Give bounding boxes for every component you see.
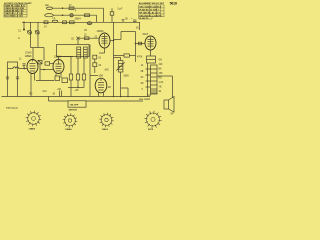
- capacitor C15 on grid wire: [139, 42, 142, 45]
- svg-text:C12: C12: [43, 91, 48, 93]
- wire V2 top: [58, 57, 60, 60]
- svg-text:R2: R2: [30, 94, 34, 96]
- capacitor C10: [122, 19, 129, 23]
- socket diagram V2 base: [63, 113, 78, 128]
- svg-text:5618: 5618: [170, 2, 177, 6]
- svg-text:12BA6: 12BA6: [54, 56, 62, 59]
- crystal diode X1: [77, 37, 80, 45]
- dial lamp wire: [53, 7, 104, 9]
- tube V2 12BA6 IF amp: [53, 60, 64, 74]
- junction dot at converter grid: [24, 68, 26, 70]
- resistor R3 on bus: [70, 21, 75, 24]
- wire grid return: [40, 69, 53, 71]
- wire cap stack link: [94, 59, 96, 63]
- resistor R13 on filament wire: [85, 14, 90, 17]
- capacitor C11 electrolytic: [131, 18, 137, 21]
- tube V1 12BE6 converter: [27, 60, 38, 74]
- wire (right drop of dial wire): [103, 8, 105, 22]
- potentiometer arrow P1: [116, 62, 124, 70]
- wire P1 link: [114, 57, 121, 59]
- coil L3 on bus: [52, 20, 58, 22]
- svg-text:22: 22: [84, 35, 87, 37]
- svg-text:+: +: [131, 18, 133, 20]
- resistor R9: [76, 74, 79, 80]
- filter/divider column: [151, 65, 158, 94]
- wire B+ feed column: [135, 32, 137, 63]
- svg-text:12BE6: 12BE6: [25, 56, 33, 58]
- switch loop wire right: [86, 100, 143, 102]
- wire osc section drop: [39, 64, 41, 81]
- svg-text:4: 4: [75, 11, 77, 13]
- capacitor C8 stack lower: [93, 63, 97, 67]
- svg-text:5: 5: [142, 89, 144, 91]
- wire V2 pins to cap: [55, 73, 57, 76]
- wire drop at C11: [139, 22, 141, 30]
- svg-text:C1: C1: [18, 31, 22, 33]
- wire V2 cathode: [60, 73, 62, 78]
- svg-text:G: G: [18, 38, 20, 40]
- output transformer T2: [147, 56, 156, 63]
- svg-text:50C5: 50C5: [143, 34, 149, 36]
- svg-text:5 µF: 5 µF: [118, 9, 123, 11]
- svg-text:4D: 4D: [141, 83, 144, 85]
- svg-text:35: 35: [136, 28, 139, 30]
- capacitor C4 under V2: [55, 76, 60, 81]
- socket diagram V4 base: [99, 113, 114, 128]
- junction dot: [77, 87, 79, 89]
- svg-text:30: 30: [53, 94, 56, 96]
- svg-text:14: 14: [44, 27, 47, 29]
- resistor R5: [45, 62, 50, 65]
- svg-text:AVC: AVC: [105, 68, 110, 71]
- junction dot W1: [62, 7, 64, 9]
- loop antenna L1: [6, 62, 19, 97]
- svg-text:10M: 10M: [99, 76, 104, 78]
- svg-text:.01: .01: [98, 57, 102, 59]
- svg-text:YE: YE: [159, 87, 163, 89]
- resistor R12 on dial wire: [69, 7, 74, 10]
- svg-text:12BA6: 12BA6: [97, 30, 105, 33]
- svg-text:.05: .05: [125, 19, 129, 21]
- svg-text:L3: L3: [53, 18, 56, 20]
- svg-text:470K: 470K: [137, 57, 143, 59]
- svg-text:SWITCH: SWITCH: [69, 109, 78, 111]
- pilot lamp symbol: [47, 7, 53, 9]
- wire center column a: [70, 57, 72, 75]
- svg-text:.02: .02: [98, 65, 102, 67]
- junction dot: [23, 29, 25, 31]
- bottom ground rail: [2, 96, 151, 98]
- svg-text:2B: 2B: [141, 71, 144, 73]
- speaker SP1: [164, 97, 174, 113]
- svg-text:VOL CONT: VOL CONT: [139, 99, 151, 101]
- filament wire: [53, 14, 96, 16]
- wire IF grid line: [78, 37, 99, 39]
- wire V1 cathode to rail: [30, 73, 32, 96]
- svg-text:500K: 500K: [124, 76, 130, 78]
- svg-text:12BE6: 12BE6: [29, 129, 36, 131]
- svg-text:ON-OFF: ON-OFF: [70, 104, 79, 106]
- electrolytic C13: [57, 89, 62, 97]
- svg-text:CONV: CONV: [25, 53, 32, 55]
- wire below R10: [83, 80, 85, 88]
- junction dots on rail: [113, 96, 129, 97]
- tube V5 50C5 output: [145, 36, 156, 50]
- tuning gang section A (trimmer C1): [27, 22, 32, 47]
- wire V5 plate down: [150, 50, 152, 56]
- resistor R8: [69, 74, 72, 80]
- IF transformer T1 can: [57, 45, 90, 57]
- svg-text:1.2K: 1.2K: [159, 82, 164, 84]
- coil L4 on bus: [87, 22, 92, 25]
- svg-text:1M: 1M: [108, 87, 111, 89]
- wire T2 left side down: [147, 63, 149, 97]
- wire detector column: [89, 45, 91, 97]
- svg-text:RD: RD: [159, 78, 163, 80]
- wire antenna drop: [23, 22, 25, 30]
- svg-text:C5: C5: [84, 30, 88, 32]
- svg-text:50C5 86 84 -6 15 8: 50C5 86 84 -6 15 8: [4, 15, 23, 18]
- svg-text:SP: SP: [171, 114, 175, 116]
- resistor R1 on bus: [44, 21, 48, 24]
- svg-text:Tube layout: Tube layout: [6, 106, 18, 109]
- T1 secondary coil: [84, 47, 88, 58]
- resistor R4: [38, 60, 42, 64]
- lamp symbol on filament wire: [70, 14, 73, 17]
- wire V3 bottom stub: [99, 52, 105, 54]
- svg-text:1A: 1A: [141, 64, 144, 67]
- volume control P1: [118, 61, 123, 73]
- wire tone cap drop: [121, 88, 128, 97]
- switch loop wire left: [49, 97, 69, 102]
- resistor R6: [62, 78, 68, 83]
- labels left of column: [141, 64, 144, 91]
- wire center column c: [83, 58, 85, 74]
- wire gang bottom: [31, 47, 45, 49]
- svg-text:BK: BK: [159, 69, 163, 71]
- parts/voltage table (top-left): [4, 2, 32, 18]
- wire to converter grid: [32, 48, 34, 60]
- wire V3 bottom pin: [104, 48, 106, 53]
- svg-text:40: 40: [159, 91, 162, 93]
- svg-text:IF 455 KC T1 TOP 7: IF 455 KC T1 TOP 7: [139, 9, 159, 12]
- svg-text:22K: 22K: [159, 64, 164, 66]
- labels right of column: [159, 60, 164, 94]
- svg-text:15K: 15K: [159, 73, 164, 75]
- wire V4 pins to rail: [99, 92, 104, 97]
- tube V3 12AV6 IF (top middle): [99, 33, 110, 48]
- wire to speaker: [157, 76, 173, 98]
- junction bus/antenna: [23, 22, 25, 24]
- left tap wires of column: [146, 69, 151, 87]
- wire AVC line: [36, 80, 54, 82]
- svg-text:12BA6: 12BA6: [65, 128, 72, 130]
- wire cap stack bottom: [94, 67, 96, 73]
- wire (right drop of filament wire): [96, 15, 98, 22]
- resistor R2 on bus: [63, 21, 67, 24]
- socket diagram V1 base: [26, 111, 42, 127]
- junction dot: [43, 69, 45, 71]
- wire V1 pin: [34, 73, 36, 80]
- phono pickup symbol: [45, 14, 54, 17]
- T1 primary coil: [77, 47, 81, 58]
- svg-text:12AV6: 12AV6: [102, 128, 109, 130]
- wire R5 to V2: [50, 63, 53, 65]
- resistor R11: [114, 54, 136, 57]
- tuning gang section B (trimmer C2): [35, 22, 40, 47]
- svg-text:+30: +30: [75, 90, 80, 92]
- wire P1 bottom: [120, 72, 122, 97]
- wire below R9: [77, 80, 79, 88]
- capacitor C3: [23, 64, 26, 69]
- antenna coil L2: [8, 67, 28, 69]
- svg-text:RF 1400 KC A1 LO 2: RF 1400 KC A1 LO 2: [139, 12, 160, 15]
- pilot lamp PL: [110, 8, 114, 22]
- svg-text:IF 455 T2: IF 455 T2: [139, 17, 149, 20]
- socket diagram V5 base: [144, 111, 161, 128]
- volume control column wire: [113, 22, 115, 96]
- wire center column b: [77, 58, 79, 74]
- resistor R10: [82, 74, 85, 80]
- on-off switch box S1: [68, 101, 86, 107]
- column bottom hatch: [151, 91, 158, 93]
- wire V3 plate right: [110, 40, 114, 42]
- B+ bus wire: [22, 21, 140, 23]
- junction dot: [135, 43, 137, 45]
- wire osc coil drop: [43, 48, 45, 61]
- svg-text:+50: +50: [57, 89, 62, 91]
- resistor R7 on grid line: [85, 37, 90, 40]
- svg-text:L1: L1: [19, 58, 22, 60]
- wire plate link: [114, 32, 136, 40]
- junction dot: [113, 40, 115, 42]
- tube/alignment table (top-right): [139, 2, 165, 20]
- svg-text:35W4: 35W4: [75, 18, 82, 20]
- junction dot W2: [62, 14, 64, 16]
- svg-text:C6: C6: [71, 38, 75, 40]
- wire P1 top: [120, 58, 122, 61]
- wire below R8: [70, 80, 72, 97]
- capacitor C7 stack upper: [93, 55, 97, 59]
- svg-text:3C: 3C: [141, 77, 144, 79]
- wire V5 grid: [136, 43, 146, 45]
- wire AVC bottom: [68, 87, 84, 89]
- tube V4 12AV6 det/audio: [95, 78, 107, 93]
- svg-text:GN: GN: [159, 60, 163, 62]
- svg-text:50C5: 50C5: [148, 129, 154, 130]
- svg-text:OSC 1620 KC A2 HI 4: OSC 1620 KC A2 HI 4: [139, 6, 161, 9]
- wire det grid: [90, 75, 98, 77]
